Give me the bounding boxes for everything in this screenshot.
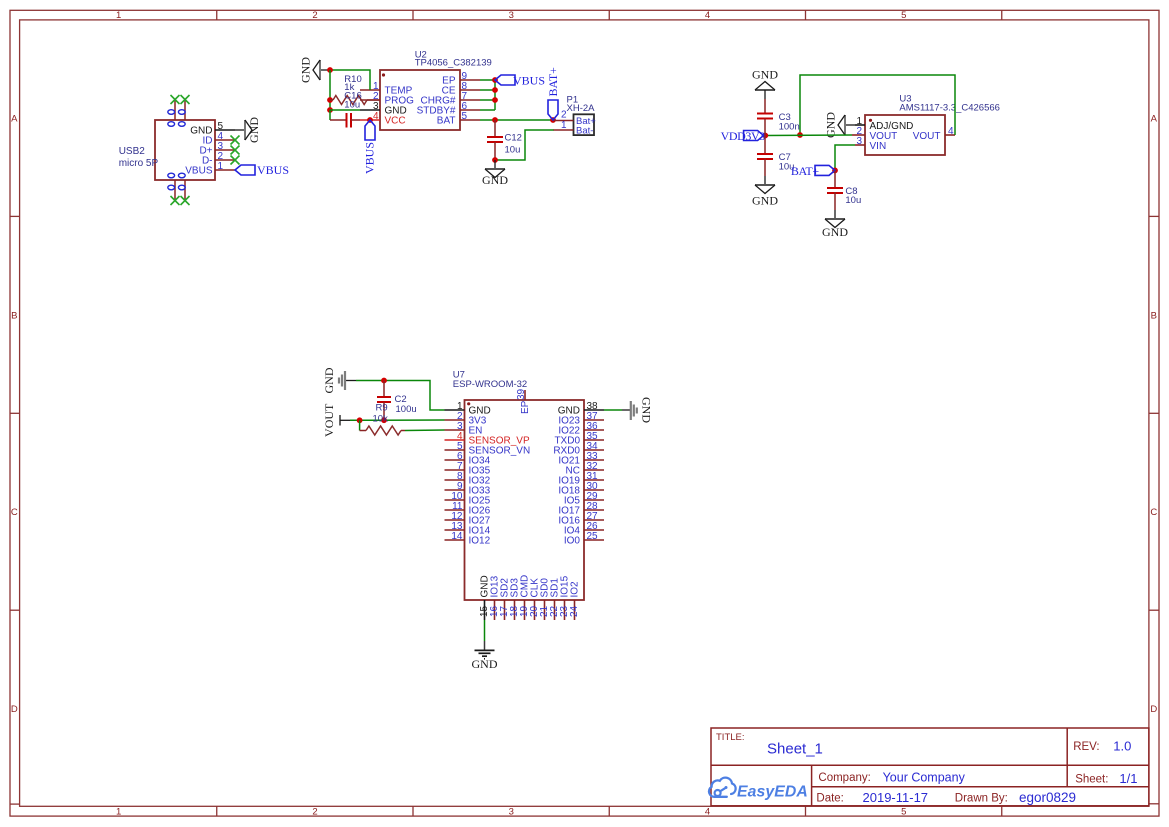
ground below U7 pin 15 [472,620,498,671]
svg-text:IO0: IO0 [564,536,581,547]
ground below C7 [752,176,778,208]
svg-text:egor0829: egor0829 [1019,790,1076,805]
svg-text:VCC: VCC [385,116,406,127]
regulator U3 AMS1117-3.3 [852,94,1000,156]
capacitor C12 10u [487,120,522,160]
ground flag left of U2 [299,57,331,83]
svg-text:2: 2 [561,109,567,120]
svg-text:Drawn By:: Drawn By: [955,793,1008,805]
U2 pins 1-4 [360,89,380,91]
svg-text:VBUS: VBUS [513,74,545,88]
svg-text:5: 5 [462,111,468,122]
EasyEDA logo [709,778,808,801]
svg-text:VOUT: VOUT [322,403,336,437]
svg-text:39: 39 [516,388,527,400]
svg-text:10u: 10u [344,100,360,111]
svg-text:A: A [1151,114,1158,125]
svg-text:5: 5 [901,806,906,817]
svg-text:VOUT: VOUT [913,131,941,142]
svg-text:2019-11-17: 2019-11-17 [863,790,929,805]
svg-text:14: 14 [451,531,463,542]
svg-text:GND: GND [247,117,261,143]
svg-text:1.0: 1.0 [1113,739,1131,754]
net flag VBUS right of U2 [495,74,545,88]
wire R9 to U7 EN [405,429,445,432]
svg-text:GND: GND [640,397,654,423]
svg-text:BAT+: BAT+ [791,164,819,178]
svg-text:GND: GND [752,194,778,208]
net flag BAT+ [546,67,560,123]
svg-text:3: 3 [856,136,862,147]
ground above C3 [752,68,778,100]
svg-text:GND: GND [822,225,848,239]
svg-text:AMS1117-3.3_C426566: AMS1117-3.3_C426566 [899,103,1000,114]
svg-text:Sheet:: Sheet: [1075,774,1108,786]
svg-text:1: 1 [116,10,121,21]
svg-text:ESP-WROOM-32: ESP-WROOM-32 [453,379,527,390]
svg-text:BAT: BAT [437,116,456,127]
wire GND to U7 pin1 [356,378,445,410]
connector USB2 micro 5P [119,100,235,200]
svg-text:D: D [11,704,18,715]
net port VOUT [322,403,350,437]
svg-text:USB2: USB2 [119,146,146,157]
ground bar flag right of U7 [604,397,654,423]
svg-text:EP: EP [520,400,531,414]
svg-text:VBUS: VBUS [257,163,289,177]
svg-text:TITLE:: TITLE: [716,732,745,743]
svg-text:Sheet_1: Sheet_1 [767,741,823,758]
svg-text:5: 5 [901,10,906,21]
svg-text:micro 5P: micro 5P [119,158,159,169]
ground below C12 [482,160,508,187]
wire GND net vertical [327,70,333,113]
capacitor C2 100u [377,381,417,421]
no-connect X marks on USB pins [171,95,240,205]
svg-text:10u: 10u [845,195,861,206]
svg-text:Date:: Date: [816,793,844,805]
svg-text:4: 4 [948,126,954,137]
svg-text:REV:: REV: [1073,741,1099,753]
svg-text:B: B [1151,310,1157,321]
svg-text:Your Company: Your Company [883,771,966,785]
svg-text:10u: 10u [505,144,521,155]
svg-text:4: 4 [373,111,379,122]
svg-text:100n: 100n [779,122,800,133]
svg-text:IO12: IO12 [469,536,491,547]
module U7 ESP-WROOM-32 [445,370,605,621]
wire VDD3V3 to U3 VOUT [762,133,852,139]
svg-text:C: C [1150,507,1157,518]
svg-text:1/1: 1/1 [1119,771,1137,786]
ground below C8 [822,210,848,239]
svg-text:Bat-: Bat- [576,126,593,137]
ground bar flag left of U7 [322,367,356,393]
svg-text:BAT+: BAT+ [546,67,560,97]
ground flag at U3 pin 1 [824,112,856,138]
svg-text:25: 25 [587,531,599,542]
svg-text:100u: 100u [396,404,417,415]
svg-text:GND: GND [299,57,313,83]
connector P1 XH-2A [554,95,597,137]
svg-text:Company:: Company: [818,772,870,784]
svg-text:10k: 10k [373,414,389,425]
svg-text:GND: GND [824,112,838,138]
title block [711,728,1149,806]
wire GND to U2 TEMP [327,67,370,90]
svg-text:VBUS: VBUS [363,142,377,174]
capacitor C3 100n [757,99,800,136]
wire U2 BAT to P1 [480,117,553,123]
svg-text:4: 4 [705,10,710,21]
capacitor C7 10u [757,136,794,177]
svg-text:EasyEDA: EasyEDA [737,784,808,801]
U7 pin 39 EP [524,390,526,400]
svg-text:VBUS: VBUS [185,166,213,177]
svg-text:D: D [1150,704,1157,715]
svg-text:GND: GND [752,68,778,82]
svg-text:B: B [11,310,17,321]
svg-text:VDD3V3: VDD3V3 [721,129,766,143]
net flag BAT+ at C8 [791,164,835,178]
svg-text:1: 1 [116,806,121,817]
svg-text:2: 2 [312,10,317,21]
capacitor C16 10u [330,91,362,128]
svg-text:3: 3 [509,806,514,817]
wire C12 to Bat- [492,130,554,163]
svg-text:1: 1 [561,120,567,131]
svg-text:TP4056_C382139: TP4056_C382139 [415,57,492,68]
ground flag at USB pin 5 [235,117,261,143]
svg-text:2: 2 [312,806,317,817]
svg-text:C: C [11,507,18,518]
svg-text:1: 1 [218,161,224,172]
wire VOUT to U7 3V3 [350,417,445,423]
wire GND to U2 pin3 [330,109,360,111]
net flag VBUS at USB pin 1 [235,163,289,177]
svg-text:C12: C12 [505,133,522,144]
resistor R9 10k [360,402,405,435]
U2 pins 9-5 [460,79,480,81]
op-amp U2 TP4056 charger IC [360,50,492,131]
svg-text:XH-2A: XH-2A [567,103,596,114]
svg-text:R9: R9 [376,402,388,413]
wires U2 right pins to VBUS [480,77,498,110]
svg-text:IO2: IO2 [570,581,581,598]
svg-text:GND: GND [322,367,336,393]
svg-text:GND: GND [472,657,498,671]
net flag VBUS at U2 VCC [363,117,377,174]
net flag VDD3V3 [721,129,766,143]
svg-text:VIN: VIN [870,141,887,152]
U7 pins with names and numbers [445,409,465,411]
svg-text:3: 3 [509,10,514,21]
USB2 shell pad 0 marks [168,110,175,115]
resistor R10 1k [330,74,380,105]
wire VOUT loop to pin 4 [797,75,955,138]
svg-text:A: A [11,114,18,125]
svg-text:GND: GND [482,173,508,187]
svg-text:4: 4 [705,806,710,817]
capacitor C8 10u [827,170,861,210]
svg-text:24: 24 [569,605,580,617]
wire U3 VIN to BAT+ [832,145,855,173]
